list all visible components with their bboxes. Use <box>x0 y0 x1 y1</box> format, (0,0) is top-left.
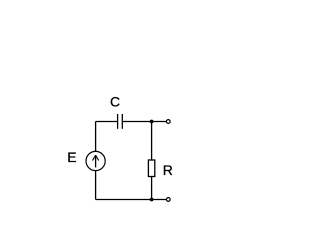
svg-text:R: R <box>163 162 173 178</box>
capacitor C <box>118 114 123 129</box>
node B (bottom junction dot) <box>150 198 154 202</box>
wire right rail upper (node A down to resistor) <box>151 122 153 161</box>
svg-text:C: C <box>110 94 120 110</box>
wire top-left (left rail to capacitor left plate) <box>96 121 117 123</box>
node A (top junction dot) <box>150 120 154 124</box>
resistor R (box) <box>148 160 154 177</box>
svg-text:E: E <box>67 149 76 165</box>
wire bottom (left rail to node B) <box>96 199 167 201</box>
wire right rail lower (resistor down to node B) <box>151 177 153 200</box>
wire left rail lower (source down to bottom wire) <box>95 171 97 200</box>
terminal bottom (output -) <box>166 198 170 202</box>
terminal top (output +) <box>166 120 170 124</box>
wire top-right (capacitor right plate to node A) <box>123 121 166 123</box>
wire left rail upper (top wire down to source) <box>95 122 97 152</box>
current source E (circle with up arrow) <box>86 151 105 170</box>
